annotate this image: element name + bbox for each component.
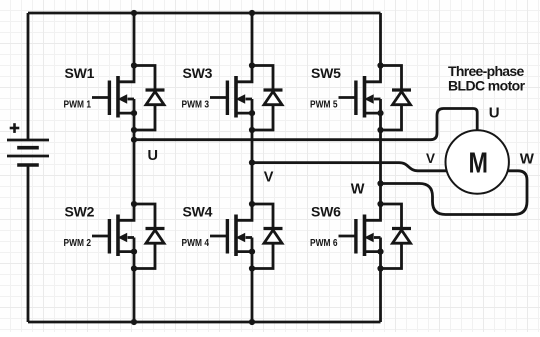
svg-text:PWM 5: PWM 5 bbox=[310, 100, 338, 111]
svg-text:PWM 3: PWM 3 bbox=[182, 100, 210, 111]
node U (phase U tap) bbox=[131, 137, 137, 143]
diode D1 (body diode of SW1) bbox=[134, 66, 165, 131]
svg-text:W: W bbox=[351, 182, 365, 198]
wire: phase V to motor terminal V bbox=[252, 163, 449, 171]
motor M (three-phase BLDC motor) bbox=[446, 130, 509, 193]
svg-text:PWM 1: PWM 1 bbox=[64, 100, 92, 111]
svg-text:V: V bbox=[264, 169, 274, 185]
wire: SW5 source to SW6 drain (phase W column) bbox=[379, 130, 382, 204]
diode D6 (body diode of SW6) bbox=[381, 204, 412, 269]
svg-text:PWM 2: PWM 2 bbox=[64, 238, 92, 249]
svg-text:SW4: SW4 bbox=[183, 203, 213, 219]
diode D3 (body diode of SW3) bbox=[252, 66, 283, 131]
node V (phase V tap) bbox=[249, 160, 255, 166]
battery V1 bbox=[7, 123, 49, 165]
svg-text:U: U bbox=[489, 105, 500, 122]
svg-text:SW6: SW6 bbox=[311, 203, 341, 219]
svg-text:SW3: SW3 bbox=[183, 65, 213, 81]
svg-text:SW2: SW2 bbox=[65, 203, 95, 219]
wire: positive supply rail (top bus) bbox=[28, 12, 381, 15]
junction: bottom rail / SW2 column bbox=[131, 319, 137, 325]
wire: SW3 source to SW4 drain (phase V column) bbox=[251, 130, 254, 204]
svg-text:BLDC motor: BLDC motor bbox=[448, 78, 526, 94]
svg-text:M: M bbox=[469, 148, 489, 180]
wire: SW1 source to SW2 drain (phase U column) bbox=[133, 130, 136, 204]
wire: phase U to motor terminal U bbox=[134, 109, 477, 140]
svg-text:W: W bbox=[520, 150, 535, 167]
svg-text:PWM 6: PWM 6 bbox=[310, 238, 338, 249]
node W (phase W tap) bbox=[377, 180, 383, 186]
junction: top rail / SW1 column bbox=[131, 10, 137, 16]
wire: top rail to SW1 drain bbox=[133, 13, 136, 66]
diode D5 (body diode of SW5) bbox=[381, 66, 412, 131]
svg-text:SW1: SW1 bbox=[65, 65, 95, 81]
wire: top rail down to SW5 drain bbox=[379, 13, 382, 66]
junction: bottom rail / SW4 column bbox=[249, 319, 255, 325]
wire: battery - to bottom rail bbox=[27, 165, 30, 322]
svg-text:SW5: SW5 bbox=[311, 65, 341, 81]
svg-text:V: V bbox=[426, 151, 435, 166]
diode D4 (body diode of SW4) bbox=[252, 204, 283, 269]
junction: top rail / SW3 column bbox=[249, 10, 255, 16]
diode D2 (body diode of SW2) bbox=[134, 204, 165, 269]
transistor SW4 bbox=[210, 201, 255, 272]
wire: battery + to top rail (left riser) bbox=[27, 13, 30, 140]
wire: SW2 source to bottom rail bbox=[133, 269, 136, 323]
transistor SW2 bbox=[92, 201, 137, 272]
transistor SW6 bbox=[339, 201, 384, 272]
transistor SW1 bbox=[92, 62, 137, 133]
wire: phase W to motor terminal W (loops under motor) bbox=[381, 171, 528, 215]
wire: SW6 source down to bottom rail bbox=[379, 269, 382, 323]
wire: top rail to SW3 drain bbox=[251, 13, 254, 66]
wire: SW4 source to bottom rail bbox=[251, 269, 254, 323]
svg-text:U: U bbox=[148, 148, 158, 164]
transistor SW3 bbox=[210, 62, 255, 133]
svg-text:PWM 4: PWM 4 bbox=[182, 238, 210, 249]
transistor SW5 bbox=[339, 62, 384, 133]
wire: negative rail (bottom bus) bbox=[28, 321, 381, 324]
